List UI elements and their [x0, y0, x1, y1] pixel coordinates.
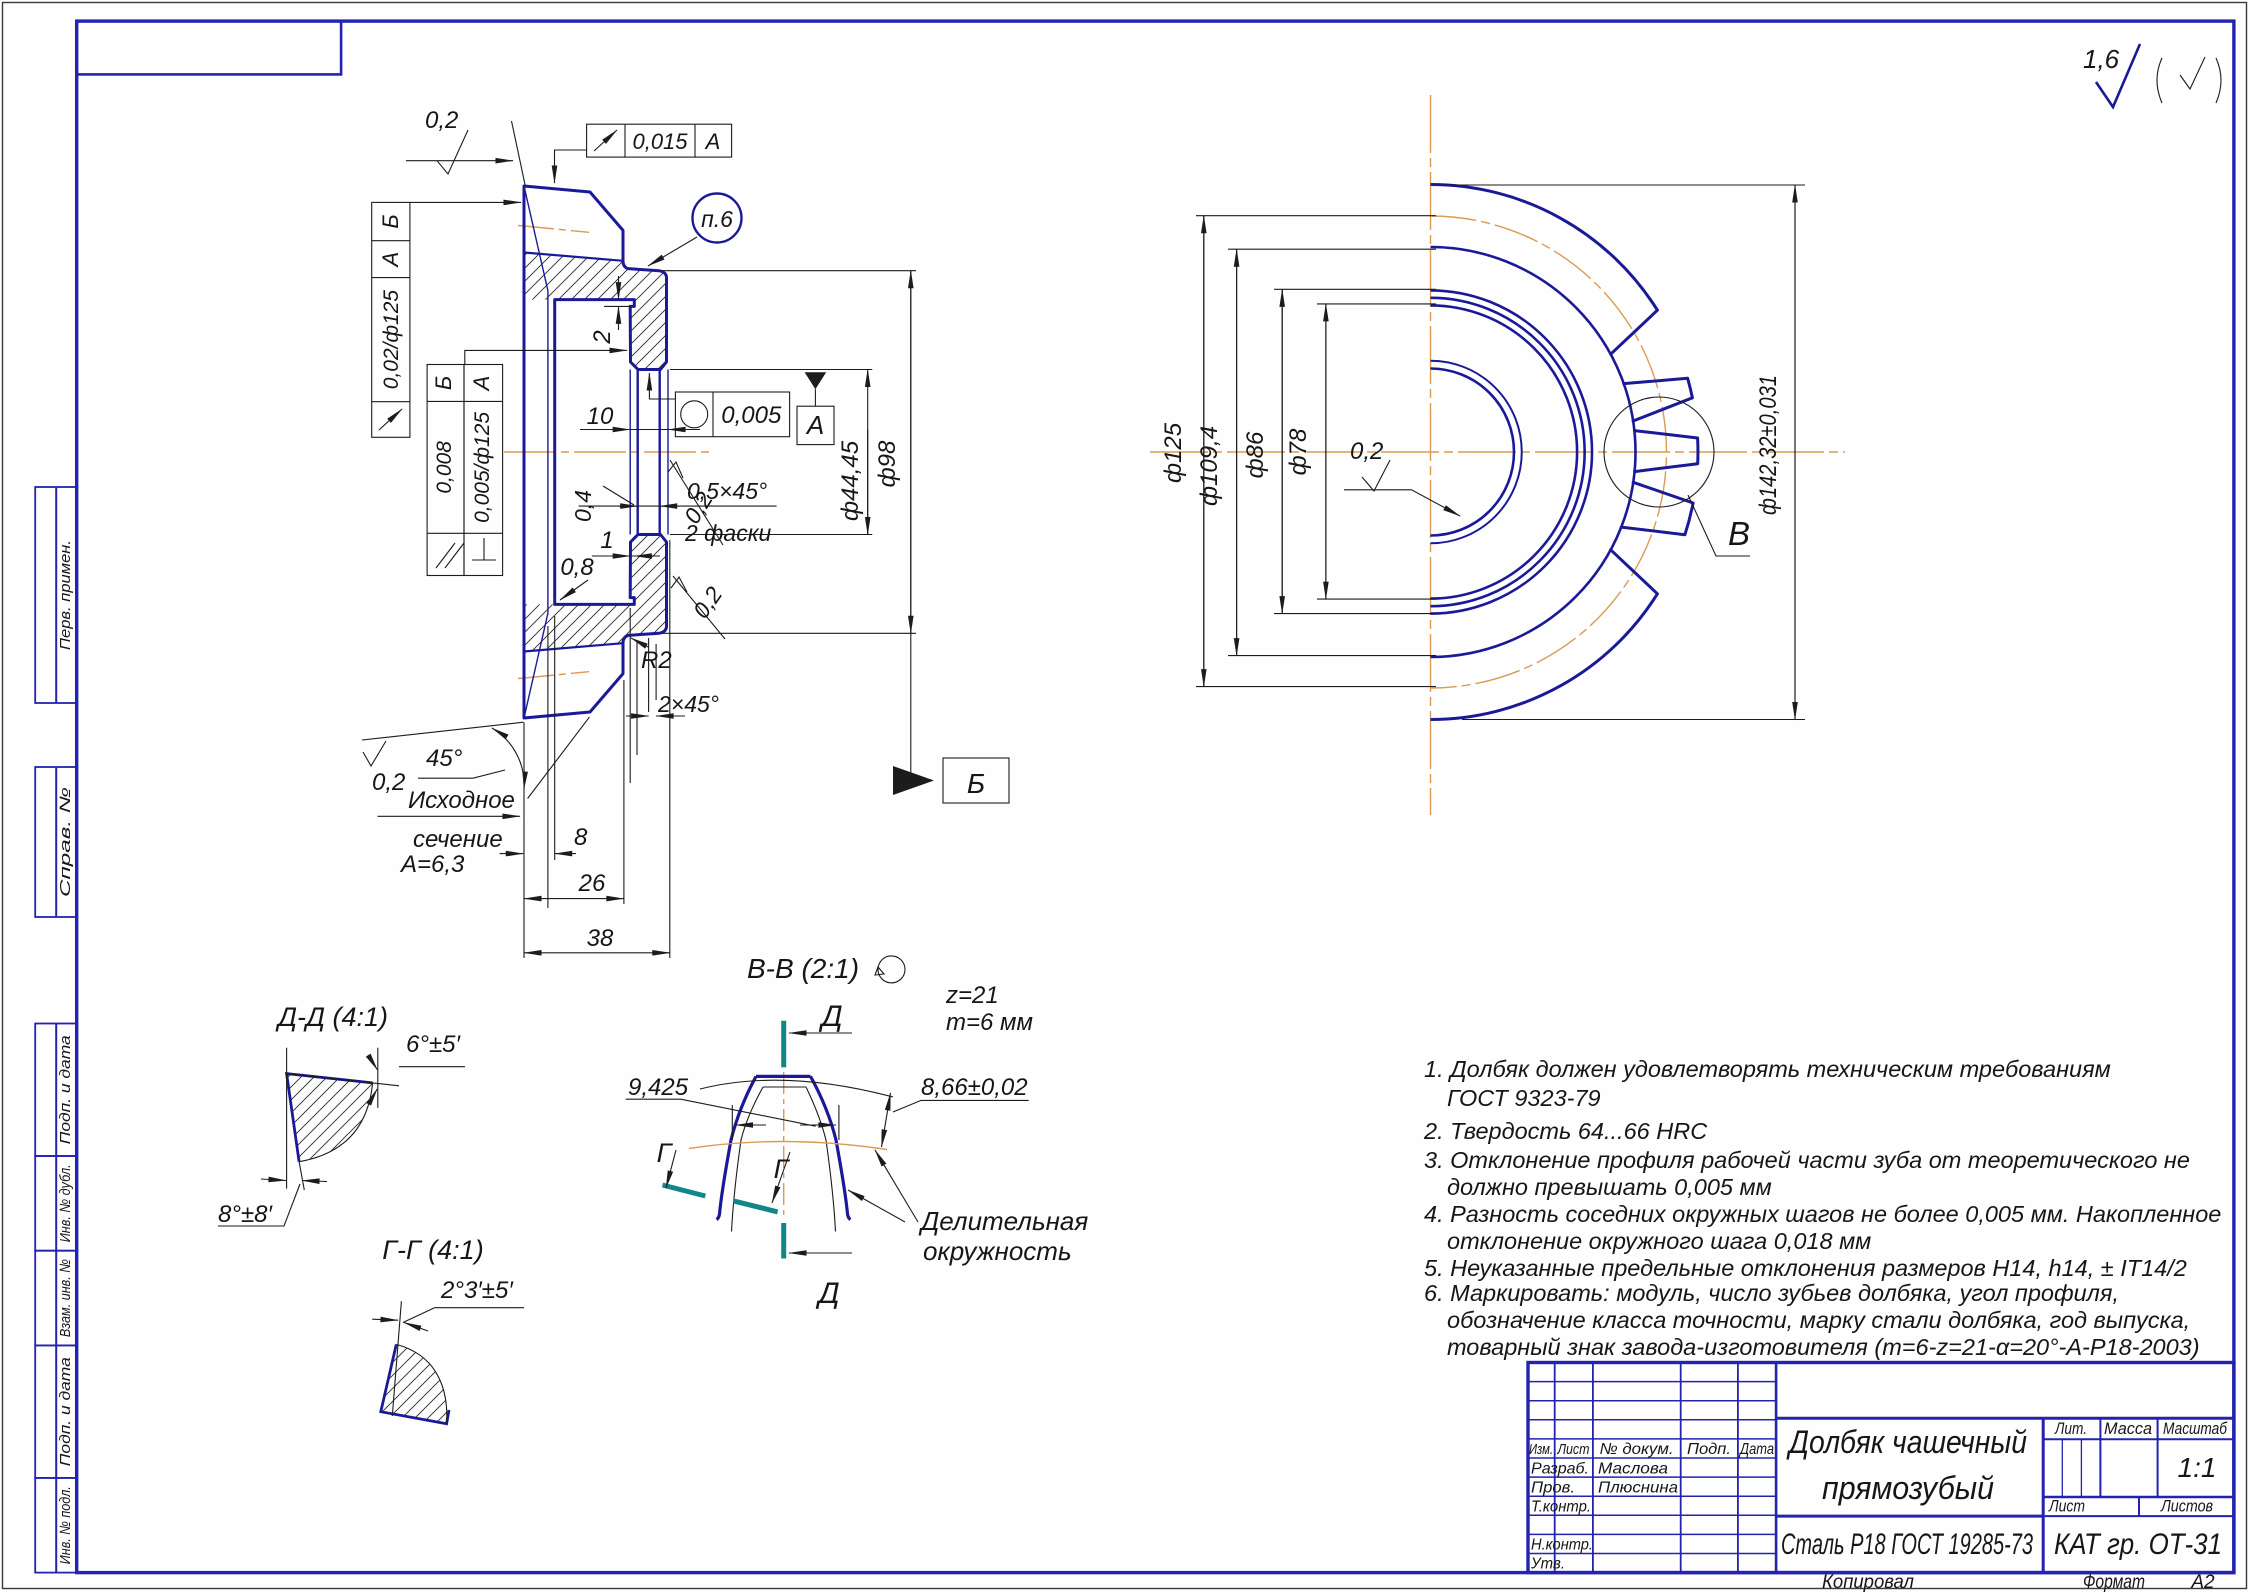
svg-text:3. Отклонение профиля рабочей: 3. Отклонение профиля рабочей части зуба…	[1424, 1147, 2190, 1173]
svg-text:Сталь Р18 ГОСТ 19285-73: Сталь Р18 ГОСТ 19285-73	[1781, 1528, 2033, 1561]
svg-text:0,02/ф125: 0,02/ф125	[380, 290, 403, 390]
svg-text:38: 38	[587, 925, 614, 952]
B-B trace line top (teal)	[781, 1021, 786, 1068]
svg-text:п.6: п.6	[701, 206, 733, 232]
tolerance frame 0,015 A (top)	[555, 124, 732, 183]
svg-text:2×45°: 2×45°	[657, 691, 719, 717]
svg-text:ф98: ф98	[874, 440, 901, 487]
svg-text:0,015: 0,015	[632, 129, 688, 154]
dim ф78	[1285, 304, 1436, 599]
svg-text:Б: Б	[378, 214, 403, 228]
tooth root lines (thin)	[524, 186, 548, 718]
svg-text:8: 8	[574, 824, 588, 851]
svg-text:№ докум.: № докум.	[1600, 1441, 1674, 1458]
Д-Д wedge arc	[299, 1083, 373, 1162]
svg-text:Маслова: Маслова	[1598, 1461, 1668, 1478]
dim 10 (hub width)	[580, 403, 700, 430]
left view hatched section lower	[524, 535, 667, 652]
Г-Г wedge outline	[381, 1344, 449, 1423]
svg-text:Делительная: Делительная	[918, 1206, 1088, 1236]
svg-text:m=6 мм: m=6 мм	[946, 1009, 1033, 1036]
B-B arrows Д	[789, 1000, 852, 1310]
leader arrow to left face	[410, 201, 521, 203]
B-B pitch arc (orange)	[689, 1141, 887, 1149]
svg-text:2°3′±5′: 2°3′±5′	[440, 1277, 514, 1304]
label Делительная окружность	[848, 1150, 1088, 1266]
right view horizontal centerline	[1150, 451, 1845, 453]
svg-text:прямозубый: прямозубый	[1822, 1470, 1994, 1506]
svg-text:должно превышать 0,005 мм: должно превышать 0,005 мм	[1447, 1174, 1772, 1200]
tolerance frame circle 0,005	[649, 373, 789, 437]
title block texts	[1529, 1419, 2228, 1592]
side column box: Справ. №	[35, 767, 76, 917]
svg-text:Формат: Формат	[2083, 1572, 2145, 1592]
roughness 0,2 bottom	[363, 741, 405, 796]
leader arrow to hub face	[465, 350, 627, 364]
Д-Д wedge outline	[287, 1074, 373, 1162]
svg-text:26: 26	[578, 870, 606, 897]
svg-text:2. Твердость 64...66 HRC: 2. Твердость 64...66 HRC	[1423, 1118, 1708, 1144]
side column box: Перв. примен.	[35, 487, 76, 703]
svg-text:6°±5′: 6°±5′	[406, 1031, 461, 1058]
Д-Д wedge hatch	[287, 1074, 373, 1162]
svg-text:Б: Б	[431, 376, 456, 390]
section B-B title	[747, 953, 905, 984]
svg-text:Лист: Лист	[2048, 1497, 2085, 1516]
Г-Г wedge hatch	[381, 1344, 447, 1423]
svg-text:Исходное: Исходное	[408, 787, 515, 814]
svg-text:1,6: 1,6	[2083, 44, 2120, 74]
roughness 0,2 on rim face	[668, 460, 723, 545]
Г-Г wedge arc	[396, 1344, 447, 1423]
svg-text:В: В	[1728, 515, 1750, 552]
datum flag B (on ф98)	[893, 633, 1009, 803]
bore chamfer circle	[1431, 361, 1522, 544]
svg-text:1:1: 1:1	[2178, 1452, 2217, 1483]
svg-text:ф86: ф86	[1242, 431, 1269, 478]
dim 1	[592, 527, 660, 556]
roughness 0,2 top-left	[406, 107, 525, 185]
svg-text:0,005: 0,005	[721, 402, 782, 429]
section Г marks	[657, 1138, 791, 1212]
svg-text:Разраб.: Разраб.	[1531, 1461, 1589, 1478]
svg-text:А2: А2	[2190, 1572, 2215, 1592]
dim 26	[524, 680, 624, 904]
dim 2x45	[626, 638, 719, 717]
svg-text:отклонение окружного шага 0,01: отклонение окружного шага 0,018 мм	[1447, 1228, 1871, 1254]
svg-text:6. Маркировать: модуль, число: 6. Маркировать: модуль, число зубьев дол…	[1424, 1280, 2119, 1306]
svg-text:Долбяк чашечный: Долбяк чашечный	[1786, 1424, 2027, 1460]
root circle ф109,4	[1431, 247, 1636, 657]
svg-text:Лит.: Лит.	[2054, 1419, 2087, 1438]
svg-text:Подп.: Подп.	[1687, 1441, 1731, 1458]
svg-text:А: А	[805, 410, 824, 440]
dim ф98	[661, 271, 916, 634]
svg-text:сечение: сечение	[413, 826, 503, 853]
left view hatched section upper	[524, 253, 667, 370]
middle circle	[1431, 298, 1585, 606]
dim 0,8	[560, 554, 594, 600]
svg-text:Дата: Дата	[1738, 1441, 1774, 1458]
svg-text:ф44,45: ф44,45	[837, 440, 864, 521]
svg-text:1. Долбяк должен удовлетворять: 1. Долбяк должен удовлетворять техническ…	[1424, 1056, 2111, 1082]
dim 8,66±0,02	[882, 1074, 1029, 1147]
Д-Д angle 6	[287, 1031, 465, 1108]
side column box: Подп. и дата	[35, 1345, 76, 1478]
dim 8	[500, 616, 588, 908]
svg-text:2: 2	[589, 330, 616, 344]
svg-text:Н.контр.: Н.контр.	[1531, 1537, 1593, 1554]
svg-text:ф78: ф78	[1285, 428, 1312, 475]
svg-text:Лист: Лист	[1557, 1441, 1590, 1458]
extension lines below lower step	[630, 608, 637, 783]
B-B trace line bottom (teal)	[781, 1223, 786, 1259]
svg-text:ф109,4: ф109,4	[1196, 426, 1223, 506]
svg-text:0,2: 0,2	[1350, 438, 1383, 465]
svg-text:Масштаб: Масштаб	[2163, 1419, 2228, 1438]
svg-text:А: А	[469, 376, 494, 393]
bore circle	[1431, 369, 1515, 536]
side column box: Взам. инв. №	[35, 1251, 76, 1346]
svg-text:Инв. № подл.: Инв. № подл.	[57, 1486, 74, 1564]
svg-text:Пров.: Пров.	[1531, 1480, 1575, 1497]
svg-text:5. Неуказанные предельные откл: 5. Неуказанные предельные отклонения раз…	[1424, 1255, 2187, 1281]
tolerance frame group 1 (runout 0,02/ф125)	[372, 202, 410, 437]
svg-text:Д-Д (4:1): Д-Д (4:1)	[275, 1002, 388, 1032]
tooth flanks	[1611, 310, 1698, 594]
dim ф109,4	[1196, 249, 1436, 655]
svg-text:0,005/ф125: 0,005/ф125	[471, 412, 494, 523]
B-B theoretical profile thin	[732, 1087, 836, 1232]
dim ф86	[1242, 289, 1436, 613]
svg-text:Справ. №: Справ. №	[57, 787, 74, 897]
svg-text:ГОСТ 9323-79: ГОСТ 9323-79	[1447, 1085, 1601, 1111]
svg-text:Взам. инв. №: Взам. инв. №	[57, 1259, 74, 1337]
dim 38	[524, 540, 670, 958]
svg-text:Листов: Листов	[2160, 1497, 2213, 1516]
svg-text:0,8: 0,8	[560, 554, 594, 581]
tooth pitch line lower	[518, 672, 589, 679]
svg-text:товарный знак завода-изготовит: товарный знак завода-изготовителя (m=6-z…	[1447, 1334, 2200, 1360]
svg-text:А=6,3: А=6,3	[399, 851, 465, 878]
right view vertical centerline	[1430, 95, 1432, 815]
dim 9,425 (chord)	[626, 1074, 839, 1140]
dim 2 (counterbore depth)	[589, 276, 632, 345]
side column box: Подп. и дата	[35, 1024, 76, 1157]
svg-text:Подп. и дата: Подп. и дата	[57, 1357, 74, 1466]
svg-text:10: 10	[587, 403, 614, 430]
svg-text:45°: 45°	[426, 745, 463, 772]
Д-Д angle 8	[218, 1048, 327, 1228]
svg-text:Т.контр.: Т.контр.	[1531, 1499, 1591, 1516]
chamfer dim 0,5x45 2 faski	[570, 478, 777, 546]
svg-text:Подп. и дата: Подп. и дата	[57, 1035, 74, 1144]
roughness 0,2 lower rim face	[671, 576, 727, 639]
45 degree angle dim	[362, 717, 589, 798]
Г-Г angle 2°3	[372, 1277, 524, 1416]
detail circle В	[1604, 397, 1750, 556]
dim ф142,32	[1445, 185, 1805, 720]
pitch circle (orange)	[1431, 216, 1667, 688]
tolerance frame group 2 (0,008 // ; 0,005/ф125 perp)	[427, 365, 503, 576]
B-B tip arc	[700, 1080, 893, 1097]
svg-text:ф125: ф125	[1160, 422, 1187, 483]
svg-text:Перв. примен.: Перв. примен.	[57, 540, 74, 650]
svg-text:Г: Г	[657, 1138, 674, 1168]
roughness 0,2 right view	[1344, 438, 1460, 516]
top-left document graph box	[77, 21, 341, 74]
svg-text:Утв.: Утв.	[1530, 1556, 1565, 1573]
general roughness mark 1,6	[2083, 44, 2221, 107]
dim ф125	[1160, 216, 1436, 687]
svg-text:ф142,32±0,031: ф142,32±0,031	[1755, 375, 1782, 515]
bore edge lines through hole	[638, 370, 660, 535]
svg-text:0,2: 0,2	[425, 107, 458, 134]
title block	[1528, 1363, 2234, 1573]
datum flag A	[797, 372, 834, 444]
R2 label	[631, 638, 672, 674]
label Исходное сечение А=6,3	[378, 787, 521, 878]
svg-text:окружность: окружность	[923, 1236, 1072, 1266]
left view centerline	[504, 451, 714, 453]
svg-text:z=21: z=21	[945, 982, 999, 1009]
svg-text:обозначение класса точности, м: обозначение класса точности, марку стали…	[1447, 1307, 2190, 1333]
svg-text:0,2: 0,2	[372, 769, 405, 796]
svg-text:Копировал: Копировал	[1822, 1572, 1914, 1592]
svg-text:Масса: Масса	[2104, 1419, 2152, 1438]
side column box: Инв. № подл.	[35, 1478, 76, 1573]
svg-text:А: А	[704, 129, 721, 154]
B-B detail centerline	[783, 1072, 785, 1218]
z and m labels	[945, 982, 1033, 1036]
svg-text:9,425: 9,425	[628, 1074, 689, 1101]
circle ф86	[1431, 290, 1593, 613]
left view section cut edges	[524, 253, 623, 652]
svg-text:Инв. № дубл.: Инв. № дубл.	[57, 1164, 74, 1242]
svg-text:КАТ гр. ОТ-31: КАТ гр. ОТ-31	[2054, 1528, 2222, 1561]
svg-text:8,66±0,02: 8,66±0,02	[921, 1074, 1028, 1101]
dim ф44,45	[670, 370, 872, 535]
svg-text:Г-Г (4:1): Г-Г (4:1)	[382, 1235, 483, 1265]
svg-text:В-В (2:1): В-В (2:1)	[747, 953, 859, 984]
svg-text:8°±8′: 8°±8′	[218, 1201, 273, 1228]
side column box: Инв. № дубл.	[35, 1156, 76, 1251]
circle n.6 label	[648, 194, 742, 267]
svg-text:Д: Д	[815, 1277, 839, 1310]
svg-text:0,4: 0,4	[570, 490, 596, 522]
svg-text:4. Разность соседних окружных: 4. Разность соседних окружных шагов не б…	[1424, 1201, 2221, 1227]
tip circle segments	[1431, 184, 1698, 719]
left view outer contour	[524, 186, 667, 718]
circle ф78	[1431, 305, 1578, 598]
svg-text:Б: Б	[967, 768, 985, 799]
svg-text:0,008: 0,008	[433, 441, 456, 494]
tooth pitch line upper	[518, 225, 589, 232]
svg-text:Д: Д	[818, 1000, 842, 1033]
svg-text:Плюснина: Плюснина	[1598, 1480, 1678, 1497]
svg-text:1: 1	[600, 527, 613, 554]
technical requirements	[1423, 1056, 2221, 1360]
svg-text:Изм.: Изм.	[1529, 1441, 1553, 1458]
svg-text:А: А	[378, 252, 403, 269]
B-B tooth profile blue	[756, 1075, 811, 1078]
